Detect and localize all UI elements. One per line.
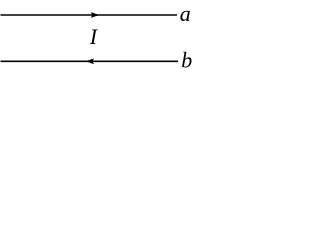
svg-text:b: b — [181, 48, 192, 73]
wire a (top conductor) — [1, 14, 178, 16]
current direction arrow on wire a — [91, 12, 100, 18]
svg-text:a: a — [180, 1, 191, 26]
wire b (bottom conductor) — [1, 60, 179, 62]
current direction arrow on wire b — [86, 58, 95, 64]
svg-text:I: I — [89, 24, 99, 49]
